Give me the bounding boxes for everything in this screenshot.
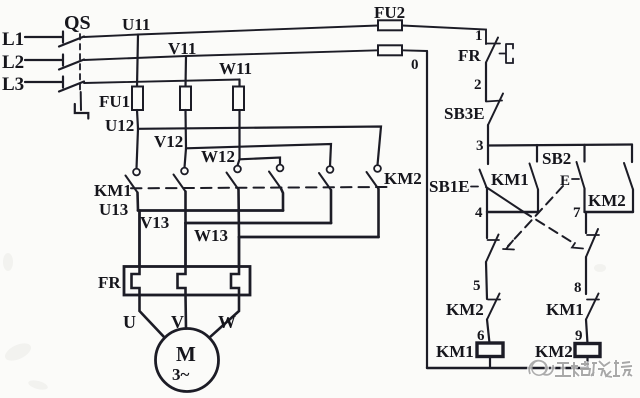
svg-text:KM2: KM2 [446,300,484,319]
wire to node 5 [486,262,487,299]
wire FR to motor V [184,295,187,329]
svg-text:SB1E: SB1E [429,177,470,196]
svg-text:8: 8 [574,280,582,296]
svg-text:U12: U12 [105,116,134,135]
wire U13 down to FR [138,211,141,267]
wire L2 input [25,55,63,66]
wire W12 to contact 3 [238,159,240,165]
wire V13 line [186,222,332,225]
wire to node 8 [585,257,587,294]
button SB1 NC interlock contact [587,234,599,236]
mechanical link dashed [131,187,388,188]
contactor KM1 main contact 1 [133,169,140,176]
svg-text:M: M [176,342,196,366]
wire contact3 to W13 [237,190,240,238]
wire KM1 aux to node4 [537,190,539,213]
wire fuse3 to W12 [238,110,240,159]
svg-text:KM1: KM1 [491,170,529,189]
svg-text:7: 7 [573,205,581,221]
svg-text:2: 2 [474,77,482,93]
svg-text:SB2: SB2 [542,149,571,168]
wire FR to motor U [140,295,165,338]
svg-text:QS: QS [64,12,91,34]
contactor KM2 main contact 4 [277,165,284,172]
contactor KM2 main contact 6 [374,165,381,172]
svg-text:3: 3 [476,138,484,154]
wire U12 distribution line to contact 6 [138,127,381,166]
svg-text:FU1: FU1 [99,92,130,111]
wire coil KM1 to bottom [489,357,491,369]
svg-text:L2: L2 [2,52,24,73]
wire node7 down [585,212,587,233]
wire SB3E to node3 [487,125,489,146]
wire W13 down to FR [238,237,241,267]
svg-text:5: 5 [473,278,481,294]
svg-text:W13: W13 [194,226,228,245]
wire V13 down to FR [184,223,187,267]
svg-text:L1: L1 [2,29,24,50]
svg-text:U13: U13 [99,200,128,219]
wire contact6 to W13 [377,189,380,237]
wire V12 to contact 2 [185,148,187,167]
svg-text:W: W [218,312,236,332]
svg-text:W11: W11 [219,59,252,78]
watermark text 工控论坛 [555,360,632,377]
svg-text:U11: U11 [122,15,150,34]
svg-text:3~: 3~ [172,365,190,384]
wire W13 line [239,236,379,239]
wire contact5 to V13 [330,190,333,223]
wire V12 distribution line to contact 5 [186,144,331,166]
wire phase line 2 after fuse to rail 0 [402,49,427,52]
wire W12 distribution line to contact 4 [240,158,281,165]
svg-text:9: 9 [575,328,583,344]
svg-text:V12: V12 [154,132,183,151]
svg-text:SB3E: SB3E [444,104,485,123]
wire phase line 1 after fuse to node 1 [402,26,486,45]
mechanical link SB2 dashed [508,186,563,246]
wire contact2 to V13 [184,192,187,224]
svg-text:KM1: KM1 [436,342,474,361]
wire phase line 3 (L3 to W11) [84,80,240,84]
FR heater element 1 [132,267,140,296]
svg-text:KM2: KM2 [588,191,626,210]
svg-text:4: 4 [475,205,483,221]
svg-text:FR: FR [458,46,481,65]
svg-text:W12: W12 [201,147,235,166]
svg-text:V13: V13 [140,213,169,232]
motor M [156,329,219,392]
wire W11 drop [238,80,240,88]
wire FR to motor W [209,295,239,338]
button SB2 NC interlock contact [488,239,500,241]
wire contact1 to U13 [136,193,139,211]
wire L1 input [25,32,63,43]
wire SB1E to node4 [486,189,488,213]
wire KM2 aux to node7 [632,190,634,213]
contactor KM1 main contact 2 [181,168,188,175]
svg-text:FR: FR [98,273,121,292]
wire fuse2 to V12 [184,110,187,148]
wire node7 line [585,211,634,213]
svg-text:1: 1 [475,28,483,44]
wire node4 line [487,211,538,213]
wire SB2 to node7 [583,189,585,213]
contactor KM1 main contact 3 [234,166,241,173]
svg-text:KM1: KM1 [94,181,132,200]
svg-text:KM1: KM1 [546,300,584,319]
wire node4 down [486,212,488,238]
contactor KM2 main contact 5 [327,166,334,173]
wire coil KM2 to bottom [586,357,588,369]
watermark logo [529,361,553,376]
wire phase line 1 (L1 to FU2) [84,26,378,38]
wire to node 9 [586,320,588,344]
svg-text:L3: L3 [2,74,24,95]
wire node3 bus [488,145,632,146]
wire U11 drop [137,35,138,88]
svg-text:KM2: KM2 [535,342,573,361]
FR heater element 3 [231,267,239,296]
wire node1 to node2 [485,63,487,102]
svg-text:U: U [123,312,136,332]
svg-text:KM2: KM2 [384,169,422,188]
wire fuse1 to U12 [137,110,138,129]
wire V11 drop [184,56,187,87]
wire contact4 to U13 [281,189,283,211]
wire to node 6 [487,320,490,344]
FR heater element 2 [178,267,186,296]
wire L3 input [25,77,63,88]
mechanical link SB1 dashed [486,187,523,212]
svg-text:V11: V11 [168,39,196,58]
svg-text:FU2: FU2 [374,3,405,22]
wire U12 to contact 1 [137,129,139,169]
wire phase line 2 (L2 to FU2) [84,50,378,60]
wire bottom return [427,367,588,369]
svg-text:0: 0 [411,57,419,73]
wire rail 0 vertical [426,51,428,368]
wire U13 line [138,209,283,212]
